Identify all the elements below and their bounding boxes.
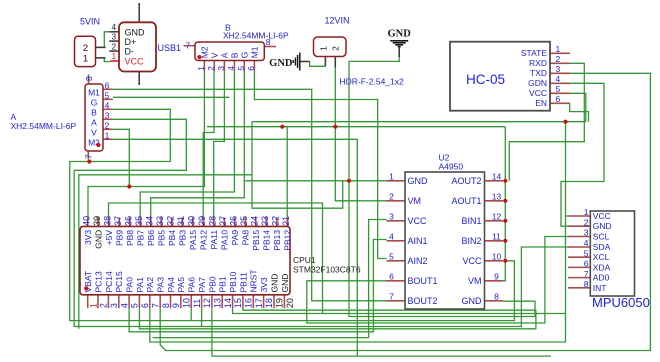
- svg-text:PA0: PA0: [125, 277, 135, 293]
- svg-text:PA6: PA6: [187, 277, 197, 293]
- CPU1 pin 40 stub: [87, 217, 89, 226]
- svg-text:VM: VM: [468, 276, 482, 286]
- svg-text:PA2: PA2: [145, 277, 155, 293]
- junction VBAT: [84, 286, 88, 290]
- wire GND to 12VIN pin1: [310, 62, 326, 67]
- CPU1 pin 39 stub: [97, 217, 99, 226]
- svg-text:7: 7: [389, 291, 394, 301]
- junction A.V 3V3: [127, 184, 131, 188]
- svg-text:2: 2: [99, 303, 109, 308]
- HC-05 pin 5 stub: [550, 92, 570, 94]
- MPU6050 pin 3 stub: [568, 236, 590, 238]
- MPU6050 pin 5 stub: [568, 256, 590, 258]
- MCU CPU1 STM32F103C8T6: [80, 226, 290, 294]
- wire mid rail left: [79, 175, 252, 329]
- junction A pin M2: [96, 143, 100, 147]
- CPU1 pin 10 stub: [180, 295, 182, 308]
- svg-text:1: 1: [196, 66, 206, 71]
- svg-text:AOUT1: AOUT1: [451, 196, 481, 206]
- svg-text:4: 4: [584, 238, 589, 248]
- CPU1 pin 14 stub: [221, 295, 223, 308]
- module MPU6050: [590, 211, 634, 296]
- wire A.2 V branch: [113, 129, 129, 186]
- USB pin 3 stub: [109, 40, 119, 42]
- wire HC-05 GDN to MPU GND: [561, 83, 604, 226]
- CPU1 pin 20 stub: [283, 295, 285, 308]
- wire PA1 to PB11 loop: [139, 308, 536, 329]
- svg-text:HC-05: HC-05: [466, 72, 505, 87]
- CPU1 pin 34 stub: [150, 217, 152, 226]
- module U3 HC-05: [450, 42, 550, 111]
- U2 pin 4 stub: [387, 240, 406, 242]
- svg-text:PB0: PB0: [207, 276, 217, 292]
- U2 pin 3 stub: [387, 220, 406, 222]
- svg-text:GND: GND: [593, 221, 612, 231]
- A pin 5 stub: [103, 98, 113, 100]
- wire jog MPU VCC pin1: [566, 215, 569, 217]
- USB connector USB1: [119, 22, 156, 71]
- svg-text:D+: D+: [125, 37, 137, 47]
- svg-text:GND: GND: [269, 274, 279, 293]
- svg-text:NRST: NRST: [249, 269, 259, 292]
- wire 12VIN pin2 to U2 VM: [335, 57, 386, 201]
- svg-text:PB7: PB7: [136, 230, 146, 246]
- svg-text:INT: INT: [593, 283, 607, 293]
- HC-05 pin 3 stub: [550, 72, 570, 74]
- svg-text:2: 2: [206, 66, 216, 71]
- HC-05 pin 1 stub: [550, 52, 570, 54]
- svg-text:5: 5: [389, 251, 394, 261]
- wire 5VIN.1 to USB VCC: [104, 58, 110, 62]
- svg-text:AOUT2: AOUT2: [451, 176, 481, 186]
- pin 1 stub 5VIN: [96, 57, 106, 59]
- svg-text:PA9: PA9: [230, 230, 240, 246]
- 12VIN pin 1 stub: [324, 57, 326, 67]
- CPU1 pin 31 stub: [181, 217, 183, 226]
- wire A.5 stub: [113, 96, 230, 98]
- wire B.6 to U2 AIN2: [254, 71, 386, 258]
- svg-text:PA12: PA12: [199, 230, 209, 250]
- junction U2 pin14: [503, 179, 507, 183]
- svg-text:36: 36: [124, 216, 134, 226]
- svg-text:10: 10: [181, 298, 191, 308]
- svg-text:GND: GND: [462, 296, 483, 306]
- USB pin 4 stub: [109, 31, 119, 33]
- connector A XH2.54MM-LI-6P: [85, 84, 103, 151]
- svg-text:TXD: TXD: [530, 68, 547, 78]
- A pin 8 stub: [88, 75, 90, 85]
- wire GND rail y126.7: [207, 126, 505, 128]
- B pin 8 stub: [264, 46, 276, 48]
- svg-text:M1: M1: [88, 88, 100, 98]
- svg-text:PB9: PB9: [115, 230, 125, 246]
- CPU1 pin 21 stub: [286, 217, 288, 226]
- svg-text:PC15: PC15: [114, 271, 124, 293]
- svg-text:3: 3: [389, 211, 394, 221]
- svg-text:XCL: XCL: [593, 252, 610, 262]
- CPU1 pin 4 stub: [118, 295, 120, 308]
- svg-text:40: 40: [82, 216, 92, 226]
- svg-text:12: 12: [202, 298, 212, 308]
- USB shield pin top: [138, 3, 140, 22]
- svg-text:3: 3: [112, 32, 117, 41]
- MPU6050 pin 8 stub: [568, 287, 590, 289]
- wire U2 GND pin8 to GND symbol: [349, 48, 535, 317]
- CPU1 pin 16 stub: [242, 295, 244, 308]
- svg-text:31: 31: [176, 216, 186, 226]
- svg-text:21: 21: [281, 216, 291, 226]
- connector B XH2.54MM-LI-6P: [195, 42, 264, 61]
- svg-text:VCC: VCC: [462, 256, 482, 266]
- svg-text:VCC: VCC: [593, 211, 611, 221]
- svg-text:14: 14: [223, 298, 233, 308]
- A pin 1 stub: [103, 138, 113, 140]
- B pin 6 stub: [253, 61, 255, 72]
- wire U2 VCC pin3 run: [153, 220, 387, 338]
- svg-text:AD0: AD0: [593, 273, 610, 283]
- svg-text:3: 3: [556, 64, 561, 74]
- svg-text:GDN: GDN: [528, 78, 547, 88]
- svg-text:CPU1: CPU1: [293, 255, 316, 265]
- U2 pin 14 stub: [485, 180, 504, 182]
- svg-text:GND: GND: [388, 29, 412, 40]
- svg-text:SCL: SCL: [593, 232, 610, 242]
- CPU1 pin 28 stub: [213, 217, 215, 226]
- svg-text:3V3: 3V3: [259, 277, 269, 292]
- CPU1 pin 2 stub: [97, 295, 99, 308]
- CPU1 pin 24 stub: [255, 217, 257, 226]
- svg-text:A: A: [220, 52, 230, 58]
- wire PA0 to U2 AIN1: [129, 240, 386, 332]
- svg-text:PB14: PB14: [262, 230, 272, 251]
- svg-text:PA7: PA7: [197, 277, 207, 293]
- svg-text:5: 5: [584, 248, 589, 258]
- wire HC-05 VCC pin5: [570, 93, 586, 121]
- svg-text:6: 6: [246, 66, 256, 71]
- svg-text:G: G: [240, 52, 250, 59]
- svg-text:PC13: PC13: [94, 271, 104, 293]
- wire MPU SCL to U2 BOUT1: [307, 237, 568, 324]
- wire U2 GND pin1 left: [244, 180, 386, 182]
- svg-text:PC14: PC14: [104, 271, 114, 293]
- junction U2 pin12: [503, 219, 507, 223]
- svg-text:9: 9: [171, 303, 181, 308]
- svg-text:1: 1: [584, 207, 589, 217]
- svg-text:PB10: PB10: [228, 271, 238, 292]
- wire HC-05 RXD to U2 AOUT2: [509, 63, 584, 181]
- CPU1 pin 33 stub: [160, 217, 162, 226]
- svg-text:2: 2: [584, 217, 589, 227]
- A pin 3 stub: [103, 118, 113, 120]
- junction VM rail: [333, 125, 337, 129]
- svg-text:6: 6: [556, 94, 561, 104]
- junction pin7 A: [87, 159, 91, 163]
- svg-text:3: 3: [584, 228, 589, 238]
- svg-text:GND: GND: [94, 230, 104, 249]
- svg-text:USB1: USB1: [158, 43, 182, 53]
- wire PB0 bottom run: [212, 308, 551, 356]
- svg-text:PB4: PB4: [167, 230, 177, 246]
- svg-text:AIN2: AIN2: [408, 256, 428, 266]
- svg-text:PB11: PB11: [238, 272, 248, 292]
- wire +5V pin38 to 5V rail: [109, 203, 323, 314]
- svg-text:1: 1: [88, 303, 98, 308]
- MPU6050 pin 1 stub: [568, 215, 590, 217]
- USB shield pin bottom: [138, 72, 140, 86]
- svg-text:PA10: PA10: [220, 230, 230, 250]
- HC-05 pin 2 stub: [550, 62, 570, 64]
- pin 2 stub 5VIN: [96, 46, 106, 48]
- wire A.3 net to PA7 and MPU SDA: [74, 119, 568, 326]
- junction U2 pin13: [503, 199, 507, 203]
- CPU1 pin 36 stub: [129, 217, 131, 226]
- svg-text:19: 19: [275, 298, 285, 308]
- svg-text:GND: GND: [269, 58, 293, 69]
- svg-text:VCC: VCC: [125, 57, 145, 67]
- CPU1 pin 3 stub: [107, 295, 109, 308]
- CPU1 pin 23 stub: [265, 217, 267, 226]
- MPU6050 pin 2 stub: [568, 225, 590, 227]
- svg-text:XH2.54MM-LI-6P: XH2.54MM-LI-6P: [11, 121, 77, 131]
- junction GND U2 pin1: [347, 179, 351, 183]
- svg-text:32: 32: [166, 216, 176, 226]
- CPU1 pin 37 stub: [118, 217, 120, 226]
- svg-text:1: 1: [389, 171, 394, 181]
- svg-text:5: 5: [105, 91, 110, 101]
- svg-text:PB15: PB15: [251, 230, 261, 251]
- svg-text:16: 16: [244, 298, 254, 308]
- CPU1 pin 18 stub: [263, 295, 265, 308]
- svg-text:A4950: A4950: [439, 161, 464, 171]
- B pin 5 stub: [243, 61, 245, 72]
- svg-text:4: 4: [105, 101, 110, 111]
- wire B.1 to CPU 3V3 pin40: [88, 71, 204, 217]
- svg-text:5VIN: 5VIN: [80, 17, 100, 27]
- svg-text:V: V: [91, 128, 97, 138]
- svg-text:2: 2: [83, 43, 88, 54]
- svg-text:4: 4: [389, 231, 394, 241]
- wire PA3 to HC-05 TXD: [160, 73, 650, 350]
- B pin 3 stub: [223, 61, 225, 72]
- CPU1 pin 7 stub: [149, 295, 151, 308]
- svg-text:27: 27: [218, 216, 228, 226]
- svg-text:4: 4: [112, 23, 117, 32]
- svg-text:V: V: [210, 52, 220, 58]
- svg-text:12VIN: 12VIN: [325, 16, 350, 26]
- wire B.4 to PB8 pin35: [140, 71, 234, 217]
- svg-text:30: 30: [187, 216, 197, 226]
- svg-text:PB3: PB3: [178, 230, 188, 246]
- svg-text:6: 6: [584, 259, 589, 269]
- wire B.3 to PA11 pin28: [214, 71, 225, 217]
- CPU1 pin 30 stub: [192, 217, 194, 226]
- svg-text:5: 5: [556, 84, 561, 94]
- svg-text:BOUT1: BOUT1: [408, 276, 438, 286]
- svg-text:2: 2: [112, 42, 117, 51]
- driver U2 A4950: [405, 172, 485, 309]
- 12VIN pin 2 stub: [334, 57, 336, 68]
- U2 pin 11 stub: [485, 240, 504, 242]
- svg-text:2: 2: [105, 121, 110, 131]
- svg-text:D-: D-: [125, 47, 135, 57]
- U2 pin 8 stub: [485, 300, 504, 302]
- svg-text:PA4: PA4: [166, 277, 176, 293]
- B pin 4 stub: [233, 61, 235, 72]
- USB pin 1 stub: [110, 60, 119, 62]
- A pin 2 stub: [103, 128, 113, 130]
- svg-text:+5V: +5V: [104, 230, 114, 246]
- MPU6050 pin 7 stub: [568, 277, 590, 279]
- svg-text:3: 3: [109, 303, 119, 308]
- svg-text:8: 8: [161, 303, 171, 308]
- svg-text:PB8: PB8: [125, 230, 135, 246]
- svg-text:STATE: STATE: [521, 48, 547, 58]
- svg-text:PA5: PA5: [176, 277, 186, 293]
- svg-text:28: 28: [208, 216, 218, 226]
- svg-text:MPU6050: MPU6050: [592, 295, 650, 310]
- svg-text:PB12: PB12: [283, 230, 293, 251]
- svg-text:8: 8: [494, 291, 499, 301]
- wire 5VIN.2 to USB GND: [96, 32, 109, 48]
- CPU1 pin 12 stub: [201, 295, 203, 308]
- svg-text:39: 39: [92, 216, 102, 226]
- B pin 1 stub: [203, 61, 205, 72]
- wire A.6 to U2 BOUT2: [113, 89, 387, 300]
- svg-text:6: 6: [389, 271, 394, 281]
- svg-text:4: 4: [556, 74, 561, 84]
- wire branch to PB12 pin21: [286, 127, 288, 218]
- svg-text:7: 7: [84, 154, 94, 159]
- svg-text:2: 2: [389, 191, 394, 201]
- svg-text:8: 8: [584, 279, 589, 289]
- svg-text:7: 7: [150, 303, 160, 308]
- svg-text:BIN2: BIN2: [461, 236, 481, 246]
- svg-text:EN: EN: [535, 98, 547, 108]
- B pin 7 stub: [184, 45, 196, 47]
- svg-text:11: 11: [492, 231, 501, 241]
- U2 pin 13 stub: [485, 200, 504, 202]
- svg-text:GND: GND: [280, 274, 290, 293]
- svg-text:PA15: PA15: [188, 230, 198, 250]
- A pin 7 stub: [87, 151, 89, 159]
- svg-text:1: 1: [105, 131, 110, 141]
- svg-text:B: B: [91, 108, 97, 118]
- svg-text:35: 35: [134, 216, 144, 226]
- svg-text:VM: VM: [408, 196, 422, 206]
- svg-text:4: 4: [119, 303, 129, 308]
- CPU1 pin 25 stub: [244, 217, 246, 226]
- connector 12VIN: [314, 37, 347, 57]
- CPU1 pin 26 stub: [234, 217, 236, 226]
- svg-text:18: 18: [264, 298, 274, 308]
- svg-text:PB1: PB1: [218, 276, 228, 292]
- svg-text:14: 14: [492, 171, 502, 181]
- U2 pin 9 stub: [485, 280, 504, 282]
- wire A.1 down: [113, 139, 357, 356]
- U2 pin 12 stub: [485, 220, 504, 222]
- svg-text:PA3: PA3: [156, 277, 166, 293]
- svg-text:33: 33: [155, 216, 165, 226]
- svg-text:7: 7: [186, 41, 191, 51]
- svg-text:2: 2: [331, 46, 341, 51]
- svg-text:25: 25: [239, 216, 249, 226]
- CPU1 pin 11 stub: [190, 295, 192, 308]
- svg-text:5: 5: [236, 66, 246, 71]
- svg-text:1: 1: [556, 44, 561, 54]
- wire B.2 to PA12 pin29: [203, 71, 214, 217]
- svg-text:8: 8: [266, 37, 271, 47]
- U2 pin 10 stub: [485, 260, 504, 262]
- svg-text:PA11: PA11: [209, 230, 219, 250]
- A pin 6 stub: [103, 88, 113, 90]
- CPU1 pin 6 stub: [138, 295, 140, 308]
- junction VCC MPU: [563, 120, 567, 124]
- svg-text:PB5: PB5: [157, 230, 167, 246]
- svg-text:11: 11: [192, 299, 202, 308]
- CPU1 pin 9 stub: [170, 295, 172, 308]
- svg-text:XDA: XDA: [593, 262, 611, 272]
- U2 pin 1 stub: [387, 180, 406, 182]
- svg-text:BOUT2: BOUT2: [408, 296, 438, 306]
- svg-text:PB13: PB13: [272, 230, 282, 251]
- svg-text:38: 38: [103, 216, 113, 226]
- svg-text:SDA: SDA: [593, 242, 611, 252]
- svg-text:29: 29: [197, 216, 207, 226]
- svg-text:PB6: PB6: [146, 230, 156, 246]
- svg-text:6: 6: [105, 81, 110, 91]
- svg-text:24: 24: [250, 216, 260, 226]
- CPU1 pin 17 stub: [252, 295, 254, 308]
- svg-text:20: 20: [285, 298, 295, 308]
- CPU1 pin 15 stub: [232, 295, 234, 308]
- CPU1 pin 13 stub: [211, 295, 213, 308]
- svg-text:12: 12: [492, 211, 502, 221]
- junction GND PB12: [280, 125, 284, 129]
- CPU1 pin 19 stub: [273, 295, 275, 308]
- svg-text:26: 26: [229, 216, 239, 226]
- svg-text:XH2.54MM-LI-6P: XH2.54MM-LI-6P: [223, 31, 289, 41]
- svg-text:3V3: 3V3: [83, 230, 93, 245]
- wire VCC rail y121.7: [252, 121, 586, 123]
- svg-text:1: 1: [83, 53, 88, 64]
- svg-text:13: 13: [213, 298, 223, 308]
- CPU1 pin 38 stub: [108, 217, 110, 226]
- svg-text:10: 10: [492, 251, 502, 261]
- svg-text:PA1: PA1: [135, 277, 145, 293]
- USB pin 2 stub: [109, 50, 119, 52]
- CPU1 pin 27 stub: [223, 217, 225, 226]
- CPU1 pin 32 stub: [171, 217, 173, 226]
- wire tap PA7 pin12: [201, 308, 203, 326]
- svg-text:3: 3: [216, 66, 226, 71]
- svg-text:34: 34: [145, 216, 155, 226]
- wire U2 right bus: [503, 127, 505, 281]
- CPU1 pin 5 stub: [128, 295, 130, 308]
- wire A.4 net to PA6 and U2 VCC pin10: [70, 109, 515, 320]
- wire PA2 to VCC rail: [150, 122, 566, 342]
- svg-text:13: 13: [492, 191, 502, 201]
- svg-text:STM32F103C8T6: STM32F103C8T6: [293, 265, 361, 275]
- junction U2 pin11: [503, 239, 507, 243]
- svg-text:5: 5: [130, 303, 140, 308]
- svg-text:1: 1: [319, 46, 329, 51]
- svg-text:G: G: [91, 98, 98, 108]
- svg-text:3: 3: [105, 111, 110, 121]
- CPU1 pin 8 stub: [159, 295, 161, 308]
- svg-text:B: B: [230, 52, 240, 58]
- svg-text:GND: GND: [125, 27, 146, 37]
- U2 pin 6 stub: [387, 280, 406, 282]
